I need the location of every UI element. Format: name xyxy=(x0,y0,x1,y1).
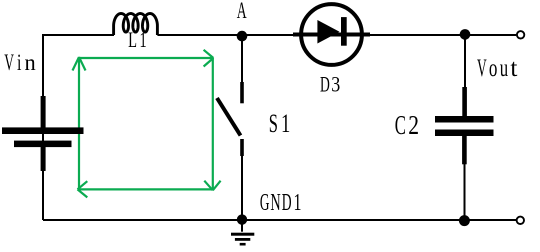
svg-text:C: C xyxy=(395,110,406,140)
svg-text:1: 1 xyxy=(140,27,147,52)
svg-text:i: i xyxy=(17,50,22,76)
svg-text:1: 1 xyxy=(281,108,290,138)
svg-text:D: D xyxy=(320,71,330,96)
svg-text:3: 3 xyxy=(331,71,340,96)
svg-text:S: S xyxy=(269,108,278,138)
svg-text:D: D xyxy=(282,189,292,216)
svg-text:o: o xyxy=(489,55,498,82)
svg-text:2: 2 xyxy=(408,110,419,140)
svg-text:N: N xyxy=(270,189,280,216)
svg-text:1: 1 xyxy=(294,189,302,216)
svg-text:t: t xyxy=(510,55,517,82)
svg-text:V: V xyxy=(4,50,14,76)
svg-text:G: G xyxy=(260,189,270,216)
svg-text:n: n xyxy=(25,50,36,76)
svg-text:L: L xyxy=(128,27,137,52)
svg-text:A: A xyxy=(237,0,247,24)
svg-text:V: V xyxy=(477,55,487,82)
svg-text:u: u xyxy=(500,55,509,82)
